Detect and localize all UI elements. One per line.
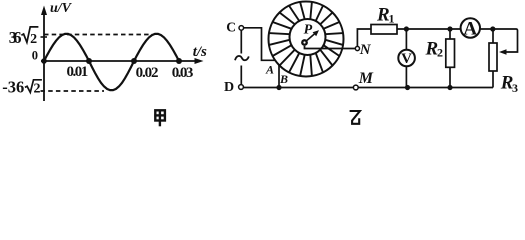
svg-text:t/s: t/s — [193, 44, 207, 60]
transformer toroid inner ring — [290, 19, 326, 55]
top wire R1 to ammeter — [397, 28, 461, 30]
junction dot V branch — [404, 26, 409, 31]
terminal C — [239, 26, 244, 31]
wire N up to top rail — [357, 29, 371, 46]
wiper pivot — [301, 39, 308, 46]
resistor R2 — [446, 39, 455, 67]
wire R3 top — [492, 29, 494, 43]
tick 36sqrt2 — [41, 36, 48, 38]
wire AC source bottom — [240, 66, 242, 85]
svg-text:V: V — [401, 51, 412, 67]
junction dot R2 bottom — [447, 85, 452, 90]
resistor R1 — [371, 25, 397, 35]
wire corner to R3 wiper — [503, 29, 518, 52]
sine curve — [44, 34, 179, 90]
wire C to tap A — [244, 28, 275, 61]
wire wiper to N — [305, 46, 356, 49]
svg-text:0.03: 0.03 — [172, 65, 194, 81]
svg-text:36: 36 — [9, 28, 22, 47]
wire R2 lower — [449, 67, 451, 87]
svg-text:C: C — [226, 19, 236, 34]
svg-text:u/V: u/V — [50, 1, 73, 16]
junction dot R2 branch — [447, 26, 452, 31]
junction dot B — [276, 85, 281, 90]
svg-text:0: 0 — [32, 48, 38, 62]
svg-text:3: 3 — [512, 81, 518, 95]
resistor R3 — [489, 43, 497, 71]
svg-text:2: 2 — [437, 46, 443, 60]
tap B wire — [278, 65, 280, 88]
dashed line -36sqrt2 — [41, 90, 105, 92]
svg-text:D: D — [224, 80, 234, 95]
R3 wiper arrowhead — [499, 49, 507, 54]
svg-text:N: N — [359, 42, 372, 58]
caption yi (乙) — [350, 111, 360, 124]
svg-text:0.01: 0.01 — [67, 64, 89, 80]
svg-text:2: 2 — [34, 81, 41, 96]
transformer winding spokes — [269, 2, 343, 76]
svg-text:A: A — [265, 63, 274, 77]
svg-text:0.02: 0.02 — [136, 65, 159, 81]
bottom wire right segment — [358, 87, 493, 89]
AC source tilde — [235, 56, 249, 60]
node 0.01 dot — [86, 58, 92, 64]
node origin dot — [41, 58, 47, 64]
junction dot R3 branch — [490, 26, 495, 31]
wire R2 upper — [449, 29, 451, 39]
transformer toroid outer ring — [269, 2, 344, 77]
wire V branch lower — [405, 66, 407, 87]
terminal M — [353, 85, 358, 90]
wire R3 bottom — [492, 71, 494, 88]
svg-text:P: P — [304, 22, 313, 37]
wiper arm arrow — [305, 33, 316, 43]
svg-text:M: M — [358, 70, 374, 87]
junction dot V bottom — [405, 85, 410, 90]
x-axis — [41, 58, 204, 64]
svg-text:B: B — [279, 72, 288, 86]
svg-text:1: 1 — [389, 12, 395, 26]
terminal N — [355, 46, 359, 50]
wire V branch upper — [405, 29, 407, 50]
ammeter A — [461, 18, 480, 37]
caption jia (甲) — [154, 110, 165, 126]
dashed line +36sqrt2 — [44, 34, 152, 36]
svg-text:-36: -36 — [2, 77, 24, 96]
bottom wire left segment — [243, 87, 353, 89]
svg-text:2: 2 — [30, 32, 37, 47]
svg-text:A: A — [463, 18, 477, 39]
wire AC source top — [240, 30, 242, 53]
node 0.02 dot — [131, 58, 137, 64]
terminal D — [239, 85, 244, 90]
node 0.03 dot — [176, 58, 182, 64]
voltmeter V — [398, 50, 415, 67]
y-axis — [41, 6, 47, 102]
top wire ammeter to corner — [480, 28, 516, 30]
